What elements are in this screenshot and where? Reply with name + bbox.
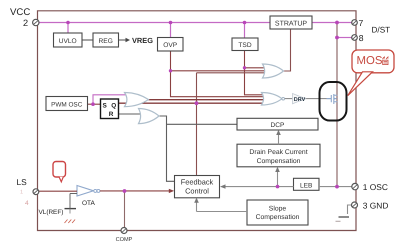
node LEB riser bbox=[276, 185, 280, 189]
svg-text:Q: Q bbox=[111, 103, 116, 110]
ground (pin3) bbox=[336, 205, 352, 221]
wire LEB to Feedback Control with arrow bbox=[220, 184, 294, 188]
wire TSD drop bbox=[244, 23, 246, 39]
or-gate U2 (drive gate) bbox=[262, 93, 285, 106]
svg-text:OTA: OTA bbox=[82, 200, 96, 207]
wire G2 output to DRV bbox=[284, 98, 330, 100]
svg-text:3 GND: 3 GND bbox=[363, 201, 389, 211]
pin 8 bbox=[352, 35, 358, 41]
wire OR1 output to STARTUP bbox=[284, 29, 291, 71]
svg-text:Drain Peak Current: Drain Peak Current bbox=[249, 149, 307, 156]
svg-text:2: 2 bbox=[23, 18, 28, 28]
svg-text:S: S bbox=[102, 103, 107, 110]
box STARTUP bbox=[270, 16, 312, 29]
svg-text:4: 4 bbox=[25, 200, 29, 207]
svg-text:PWM OSC: PWM OSC bbox=[51, 101, 83, 108]
wire VCC rail bbox=[39, 22, 352, 24]
box REG bbox=[93, 33, 119, 47]
pin 3 (GND) bbox=[352, 202, 358, 208]
or-gate U1 (UVLO/OVP/TSD) bbox=[263, 64, 284, 78]
svg-text:Compensation: Compensation bbox=[257, 158, 301, 165]
svg-text:LEB: LEB bbox=[300, 182, 313, 189]
annotation bubble (LS) bbox=[53, 162, 66, 182]
svg-text:Slope: Slope bbox=[269, 205, 287, 212]
box TSD bbox=[232, 38, 258, 51]
svg-text:DCP: DCP bbox=[271, 122, 286, 129]
svg-text:COMP: COMP bbox=[116, 237, 133, 243]
svg-text:1 OSC: 1 OSC bbox=[363, 182, 388, 192]
wire gate A output bbox=[149, 99, 265, 101]
wire UVLO to REG bbox=[82, 39, 93, 41]
svg-text:STRATUP: STRATUP bbox=[275, 20, 307, 27]
node Q-FC bbox=[195, 101, 199, 105]
latch U5 (S/R) bbox=[101, 99, 119, 119]
wire OVP branch to OR1 bbox=[171, 70, 266, 72]
node rail-OVP bbox=[169, 21, 173, 25]
svg-text:R: R bbox=[109, 111, 114, 118]
box Feedback Control bbox=[175, 176, 220, 198]
wire latch R line bbox=[119, 113, 148, 115]
wire PWM OSC to latch S bbox=[88, 103, 101, 105]
wire Drain Peak to DCP bbox=[276, 130, 281, 144]
node PWM-S bbox=[91, 102, 95, 106]
wire FC bottom to Slope Compensation bbox=[194, 198, 247, 212]
outer IC border bbox=[38, 11, 357, 231]
svg-text:OVP: OVP bbox=[163, 42, 178, 49]
wire pin8 to drain vertical bbox=[337, 37, 352, 39]
wire TSD output bbox=[245, 51, 265, 95]
svg-text:LS: LS bbox=[17, 177, 28, 187]
svg-text:Feedback: Feedback bbox=[181, 178, 214, 187]
wire LEB to OSC pin bbox=[319, 186, 352, 188]
svg-text:7: 7 bbox=[359, 18, 364, 28]
svg-text:D/ST: D/ST bbox=[372, 25, 391, 34]
pin 7 bbox=[352, 20, 358, 26]
reference VL(REF) bbox=[65, 194, 78, 224]
pin COMP bbox=[121, 228, 127, 234]
svg-text:Control: Control bbox=[185, 187, 209, 196]
wire gate B output to FC bbox=[159, 116, 175, 181]
wire OVP output bbox=[171, 51, 265, 97]
pin 1 (OSC) bbox=[352, 183, 358, 189]
buffer DRV bbox=[293, 94, 306, 104]
wire feedback net vertical bbox=[197, 73, 266, 176]
or-gate U4 (gate B) bbox=[139, 109, 160, 124]
svg-text:VL(REF): VL(REF) bbox=[39, 209, 64, 216]
pin 2 (VCC) bbox=[33, 19, 39, 25]
wire PWM riser to gate A bbox=[93, 95, 134, 104]
node pin8 bbox=[335, 36, 339, 40]
svg-text:VCC: VCC bbox=[10, 7, 30, 18]
box DCP bbox=[237, 118, 318, 130]
transistor Q1 (power MOSFET) bbox=[327, 94, 338, 104]
node OVP branch bbox=[169, 69, 172, 72]
annotation bubble MOS bbox=[348, 50, 394, 96]
box PWM OSC bbox=[46, 97, 88, 111]
pin LS bbox=[33, 189, 39, 195]
MOSFET enclosure ring bbox=[320, 82, 347, 121]
node COMP riser bbox=[123, 189, 127, 193]
svg-text:TSD: TSD bbox=[238, 42, 251, 49]
box UVLO bbox=[54, 33, 83, 47]
or-gate U3 (gate A, PWM/latch) bbox=[125, 93, 149, 107]
box Slope Compensation bbox=[247, 200, 308, 225]
op-amp OTA bbox=[77, 186, 100, 208]
svg-text:REG: REG bbox=[99, 38, 113, 45]
wire OTA output to FC with arrow bbox=[100, 189, 174, 193]
wire gate B branch to DCP bbox=[167, 123, 238, 125]
svg-text:1: 1 bbox=[20, 190, 23, 196]
wire LS pin to OTA bbox=[39, 190, 77, 192]
box OVP bbox=[158, 38, 184, 52]
svg-text:MOS: MOS bbox=[357, 55, 383, 67]
node sense-LEB bbox=[335, 185, 339, 189]
wire UVLO drop bbox=[67, 23, 69, 34]
svg-text:UVLO: UVLO bbox=[59, 38, 77, 45]
wire latch Q line bbox=[119, 102, 265, 104]
node TSD branch bbox=[243, 66, 246, 69]
svg-text:8: 8 bbox=[359, 33, 364, 43]
wire COMP riser bbox=[124, 191, 126, 231]
node rail-TSD bbox=[243, 21, 247, 25]
svg-text:VREG: VREG bbox=[132, 36, 153, 45]
svg-text:DRV: DRV bbox=[294, 97, 306, 103]
wire sense riser to Drain Peak box bbox=[275, 167, 280, 187]
node rail-pin7 bbox=[335, 21, 339, 25]
wire OVP drop bbox=[170, 23, 172, 38]
node rail-UVLO bbox=[66, 21, 70, 25]
wire TSD branch to OR1 bbox=[245, 67, 266, 69]
svg-text:Compensation: Compensation bbox=[256, 214, 300, 221]
box LEB bbox=[294, 178, 320, 190]
wire REG to VREG arrow bbox=[119, 38, 131, 42]
box Drain Peak Current Compensation bbox=[237, 144, 320, 167]
wire drain vertical bbox=[336, 23, 338, 187]
